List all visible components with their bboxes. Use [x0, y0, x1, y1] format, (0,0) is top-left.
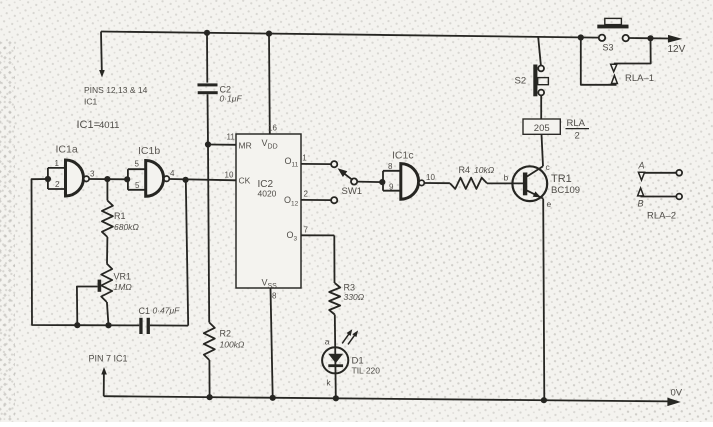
svg-text:10: 10 — [426, 173, 435, 182]
svg-text:1: 1 — [302, 154, 307, 163]
svg-text:IC1a: IC1a — [56, 144, 78, 156]
svg-text:100kΩ: 100kΩ — [220, 340, 245, 350]
svg-text:2: 2 — [55, 180, 60, 189]
svg-text:330Ω: 330Ω — [344, 292, 365, 302]
svg-text:A: A — [638, 161, 645, 171]
svg-text:IC1c: IC1c — [392, 150, 414, 162]
svg-text:SW1: SW1 — [342, 186, 363, 197]
svg-text:11: 11 — [227, 133, 236, 142]
svg-text:8: 8 — [388, 162, 393, 171]
svg-text:12V: 12V — [668, 44, 686, 55]
svg-text:IC1: IC1 — [84, 97, 98, 107]
svg-text:VR1: VR1 — [114, 272, 132, 282]
svg-text:9: 9 — [389, 183, 394, 192]
svg-text:10: 10 — [225, 171, 234, 180]
svg-text:S2: S2 — [515, 76, 527, 87]
svg-text:10kΩ: 10kΩ — [474, 165, 495, 175]
svg-text:4020: 4020 — [258, 189, 277, 199]
svg-text:b: b — [504, 173, 509, 183]
svg-text:7: 7 — [304, 226, 309, 235]
svg-text:k: k — [326, 378, 331, 388]
svg-text:0V: 0V — [671, 388, 683, 399]
svg-text:5: 5 — [135, 160, 140, 169]
svg-text:8: 8 — [272, 292, 277, 301]
svg-text:0·47μF: 0·47μF — [153, 306, 181, 316]
svg-text:1: 1 — [55, 159, 60, 168]
svg-text:BC109: BC109 — [551, 185, 580, 196]
svg-text:R4: R4 — [459, 165, 471, 175]
svg-text:IC1=: IC1= — [77, 119, 101, 131]
svg-text:R3: R3 — [344, 283, 356, 293]
svg-text:16: 16 — [268, 124, 277, 133]
svg-text:4011: 4011 — [99, 120, 119, 131]
svg-text:R1: R1 — [114, 211, 126, 221]
svg-text:RLA–2: RLA–2 — [647, 211, 676, 222]
svg-text:CK: CK — [239, 176, 251, 186]
svg-text:a: a — [325, 337, 330, 347]
svg-text:1MΩ: 1MΩ — [114, 282, 133, 292]
svg-text:B: B — [638, 199, 644, 209]
svg-text:2: 2 — [304, 190, 309, 199]
svg-text:680kΩ: 680kΩ — [114, 222, 139, 232]
svg-text:TR1: TR1 — [551, 173, 572, 185]
svg-text:PINS 12,13 & 14: PINS 12,13 & 14 — [84, 85, 148, 95]
svg-text:205: 205 — [534, 123, 550, 134]
svg-text:RLA: RLA — [567, 118, 586, 129]
svg-text:IC1b: IC1b — [138, 145, 160, 157]
svg-text:MR: MR — [239, 141, 252, 151]
svg-text:RLA–1: RLA–1 — [625, 73, 654, 84]
svg-text:2: 2 — [575, 131, 580, 142]
svg-text:4: 4 — [170, 169, 175, 178]
svg-text:S3: S3 — [603, 43, 614, 53]
svg-text:PIN 7 IC1: PIN 7 IC1 — [89, 354, 128, 364]
svg-text:5: 5 — [135, 181, 140, 190]
svg-text:C1: C1 — [139, 306, 151, 316]
svg-text:R2: R2 — [220, 329, 232, 339]
svg-text:e: e — [547, 199, 552, 209]
svg-text:TIL 220: TIL 220 — [352, 366, 381, 376]
svg-text:3: 3 — [90, 170, 95, 179]
svg-text:0·1μF: 0·1μF — [220, 94, 243, 104]
